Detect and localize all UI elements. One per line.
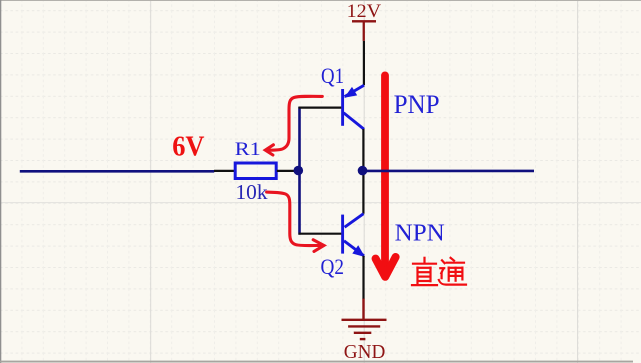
wire: base of Q2 (black) bbox=[299, 233, 342, 235]
svg-text:Q1: Q1 bbox=[321, 63, 344, 88]
wire: 12V to Q1 emitter bbox=[363, 41, 365, 85]
Q2 emitter arrowhead (NPN, pointing out) bbox=[352, 245, 365, 257]
transistor Q1 (PNP) bbox=[343, 85, 364, 129]
junction node at R1 output bbox=[294, 166, 304, 176]
output net wire (navy, right) bbox=[363, 170, 535, 173]
big red shoot-through arrow shaft bbox=[381, 75, 389, 273]
svg-text:GND: GND bbox=[344, 341, 386, 363]
svg-text:R1: R1 bbox=[235, 139, 261, 160]
power port 12V bar symbol bbox=[352, 20, 376, 22]
resistor right pin wire bbox=[277, 170, 299, 172]
wire: Q1 collector to mid junction bbox=[362, 129, 364, 171]
junction node at output bbox=[358, 166, 368, 176]
ground symbol bbox=[342, 299, 387, 340]
transistor Q2 (NPN) bbox=[343, 214, 364, 256]
big red arrow head bbox=[376, 257, 396, 277]
svg-text:Q2: Q2 bbox=[321, 254, 345, 279]
resistor R1 body bbox=[235, 163, 276, 179]
annotation arrow: Q1 base to R1 bbox=[265, 96, 322, 155]
input net wire (navy, left) bbox=[20, 170, 214, 173]
Q1 emitter arrowhead (PNP, pointing into base) bbox=[344, 87, 357, 98]
svg-text:6V: 6V bbox=[172, 130, 204, 162]
svg-text:12V: 12V bbox=[347, 1, 382, 22]
wire: Q2 emitter to GND bbox=[362, 256, 364, 299]
power port 12V stub bbox=[363, 23, 365, 41]
base bus vertical wire (navy) bbox=[298, 107, 301, 235]
svg-text:NPN: NPN bbox=[395, 220, 445, 246]
svg-text:10k: 10k bbox=[236, 180, 269, 204]
wire: mid junction to Q2 collector bbox=[362, 170, 364, 214]
wire: base of Q1 (black) bbox=[299, 106, 342, 108]
resistor left pin wire bbox=[214, 170, 235, 172]
svg-text:PNP: PNP bbox=[394, 90, 440, 119]
annotation text 直通 (drawn strokes) bbox=[412, 258, 437, 285]
annotation arrow: 10k to Q2 base bbox=[267, 192, 324, 251]
